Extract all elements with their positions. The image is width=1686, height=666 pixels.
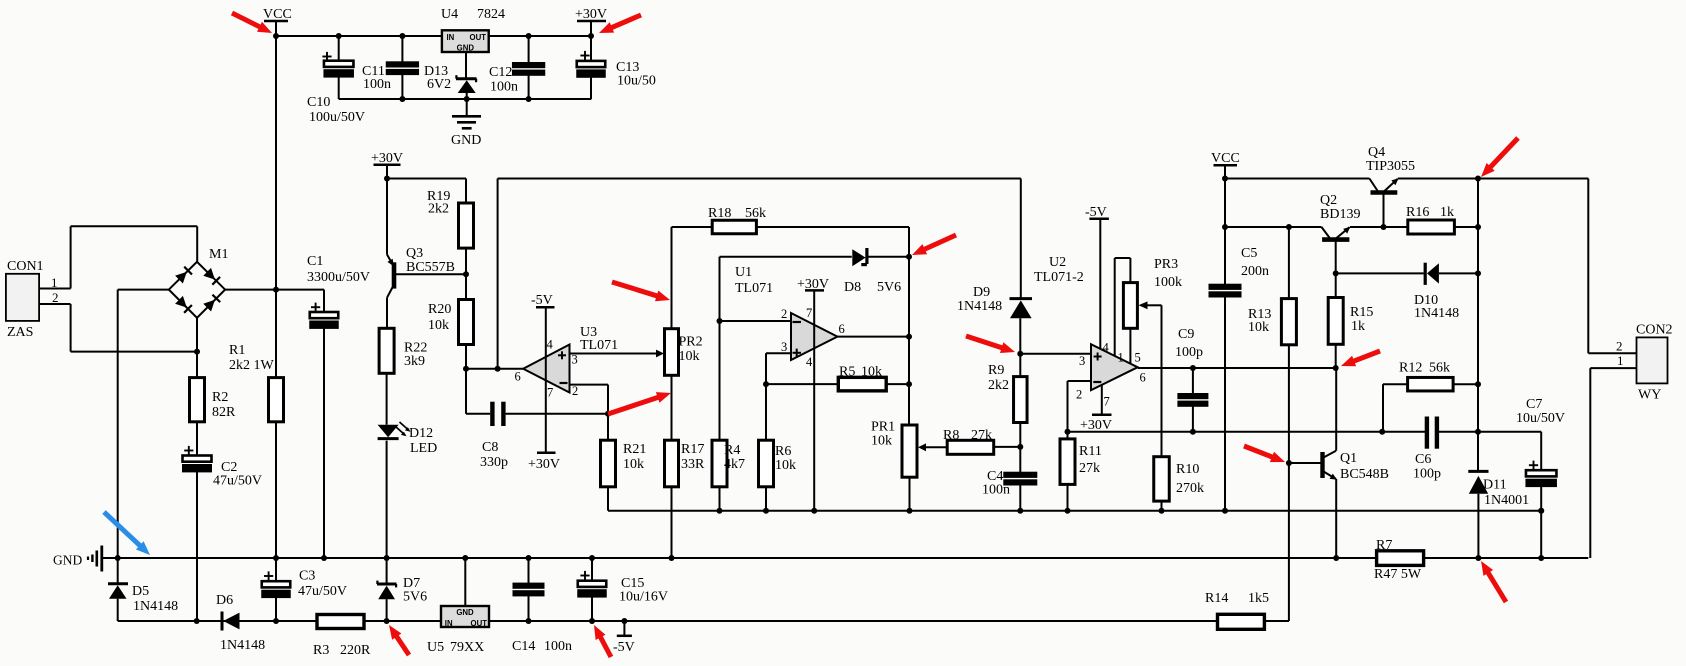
svg-text:C7: C7 — [1526, 397, 1542, 412]
svg-text:IN: IN — [445, 619, 453, 628]
svg-text:2k2 1W: 2k2 1W — [229, 358, 275, 373]
svg-text:PR1: PR1 — [871, 420, 895, 435]
svg-text:10u/50: 10u/50 — [617, 74, 656, 89]
svg-text:R12: R12 — [1399, 361, 1422, 376]
svg-text:R17: R17 — [681, 442, 704, 457]
svg-text:R11: R11 — [1079, 444, 1102, 459]
svg-text:10k: 10k — [428, 318, 449, 333]
svg-text:1: 1 — [1617, 353, 1624, 368]
svg-text:100n: 100n — [982, 483, 1010, 498]
svg-text:R3: R3 — [313, 643, 329, 658]
svg-text:10k: 10k — [679, 349, 700, 364]
svg-text:BD139: BD139 — [1320, 207, 1360, 222]
svg-text:CON2: CON2 — [1636, 323, 1673, 338]
svg-text:200n: 200n — [1241, 264, 1269, 279]
svg-text:270k: 270k — [1176, 481, 1204, 496]
svg-text:TL071: TL071 — [735, 281, 773, 296]
svg-text:47u/50V: 47u/50V — [298, 584, 347, 599]
svg-text:1k: 1k — [1440, 205, 1454, 220]
svg-text:5V6: 5V6 — [877, 280, 901, 295]
svg-text:27k: 27k — [1079, 461, 1100, 476]
svg-text:5V6: 5V6 — [403, 590, 427, 605]
svg-text:100n: 100n — [490, 80, 518, 95]
svg-text:PR2: PR2 — [679, 335, 703, 350]
svg-text:VCC: VCC — [1211, 151, 1240, 166]
svg-text:C12: C12 — [489, 65, 512, 80]
svg-text:3: 3 — [572, 353, 578, 367]
svg-text:R20: R20 — [428, 302, 451, 317]
svg-text:M1: M1 — [209, 247, 228, 262]
svg-text:4: 4 — [1103, 341, 1110, 355]
svg-text:10k: 10k — [1248, 320, 1269, 335]
svg-text:1k: 1k — [1351, 319, 1365, 334]
svg-text:2: 2 — [52, 290, 59, 305]
svg-text:R9: R9 — [988, 363, 1004, 378]
svg-text:U4: U4 — [441, 7, 458, 22]
svg-text:56k: 56k — [745, 206, 766, 221]
svg-text:GND: GND — [457, 43, 475, 52]
svg-text:U5: U5 — [427, 640, 444, 655]
svg-text:82R: 82R — [212, 405, 236, 420]
svg-text:3: 3 — [781, 340, 787, 354]
svg-text:10k: 10k — [861, 365, 882, 380]
svg-text:4k7: 4k7 — [724, 457, 745, 472]
svg-text:3300u/50V: 3300u/50V — [307, 270, 370, 285]
svg-text:6V2: 6V2 — [427, 77, 451, 92]
svg-text:3: 3 — [1079, 354, 1085, 368]
svg-text:100n: 100n — [363, 77, 391, 92]
svg-text:R5: R5 — [839, 365, 855, 380]
svg-text:-5V: -5V — [531, 293, 553, 308]
svg-text:R1: R1 — [229, 343, 245, 358]
svg-text:GND: GND — [451, 133, 481, 148]
svg-text:100n: 100n — [544, 639, 572, 654]
svg-text:R16: R16 — [1406, 205, 1429, 220]
svg-text:2: 2 — [1076, 388, 1082, 402]
svg-text:R10: R10 — [1176, 462, 1199, 477]
svg-text:3k9: 3k9 — [404, 354, 425, 369]
svg-text:10k: 10k — [775, 458, 796, 473]
svg-text:OUT: OUT — [470, 33, 487, 42]
svg-text:5: 5 — [1135, 351, 1141, 365]
svg-text:BC548B: BC548B — [1340, 467, 1389, 482]
svg-text:330p: 330p — [480, 455, 508, 470]
svg-text:2: 2 — [1616, 339, 1623, 354]
svg-text:BC557B: BC557B — [406, 260, 455, 275]
svg-text:R18: R18 — [708, 206, 731, 221]
svg-text:47u/50V: 47u/50V — [213, 474, 262, 489]
svg-text:7: 7 — [1104, 395, 1110, 409]
svg-text:1N4001: 1N4001 — [1484, 493, 1529, 508]
svg-text:ZAS: ZAS — [7, 325, 33, 340]
svg-text:C5: C5 — [1241, 246, 1257, 261]
svg-text:IN: IN — [447, 33, 455, 42]
svg-text:6: 6 — [515, 370, 521, 384]
svg-text:R7: R7 — [1376, 538, 1392, 553]
svg-text:Q4: Q4 — [1368, 145, 1385, 160]
svg-text:100p: 100p — [1175, 345, 1203, 360]
svg-text:R4: R4 — [724, 443, 740, 458]
svg-text:R14: R14 — [1205, 591, 1228, 606]
svg-text:C10: C10 — [307, 95, 330, 110]
svg-text:PR3: PR3 — [1154, 257, 1178, 272]
svg-text:1N4148: 1N4148 — [220, 638, 265, 653]
svg-text:C8: C8 — [482, 440, 498, 455]
svg-text:CON1: CON1 — [7, 259, 44, 274]
svg-text:79XX: 79XX — [450, 640, 484, 655]
svg-text:+30V: +30V — [797, 277, 829, 292]
svg-text:7824: 7824 — [477, 7, 505, 22]
svg-text:R2: R2 — [212, 390, 228, 405]
svg-text:7: 7 — [547, 386, 553, 400]
svg-text:TL071: TL071 — [580, 338, 618, 353]
svg-text:1N4148: 1N4148 — [957, 299, 1002, 314]
svg-text:D8: D8 — [844, 280, 861, 295]
svg-text:TIP3055: TIP3055 — [1366, 159, 1415, 174]
svg-text:100k: 100k — [1154, 275, 1182, 290]
svg-text:OUT: OUT — [471, 619, 488, 628]
svg-text:10k: 10k — [871, 434, 892, 449]
svg-text:2: 2 — [572, 384, 578, 398]
svg-text:Q3: Q3 — [406, 246, 423, 261]
svg-text:1N4148: 1N4148 — [1414, 306, 1459, 321]
svg-text:C3: C3 — [299, 569, 315, 584]
svg-text:33R: 33R — [681, 457, 705, 472]
svg-text:4: 4 — [806, 355, 813, 369]
svg-text:D11: D11 — [1483, 478, 1507, 493]
svg-text:R15: R15 — [1350, 305, 1373, 320]
svg-text:2k2: 2k2 — [988, 378, 1009, 393]
svg-text:1N4148: 1N4148 — [133, 599, 178, 614]
svg-text:100u/50V: 100u/50V — [309, 110, 365, 125]
svg-text:C1: C1 — [307, 254, 323, 269]
svg-text:Q2: Q2 — [1320, 193, 1337, 208]
svg-text:100p: 100p — [1413, 467, 1441, 482]
svg-text:WY: WY — [1638, 388, 1661, 403]
svg-text:R47 5W: R47 5W — [1374, 567, 1422, 582]
svg-text:10k: 10k — [623, 457, 644, 472]
svg-text:C6: C6 — [1415, 452, 1431, 467]
svg-text:4: 4 — [547, 338, 554, 352]
svg-text:1k5: 1k5 — [1248, 591, 1269, 606]
svg-text:220R: 220R — [340, 643, 371, 658]
svg-text:D12: D12 — [409, 426, 433, 441]
svg-text:LED: LED — [410, 441, 437, 456]
svg-text:-5V: -5V — [613, 640, 635, 655]
svg-text:U2: U2 — [1049, 255, 1066, 270]
svg-text:+30V: +30V — [528, 457, 560, 472]
svg-text:C14: C14 — [512, 639, 535, 654]
svg-text:10u/16V: 10u/16V — [619, 590, 668, 605]
svg-text:D6: D6 — [216, 593, 233, 608]
svg-text:6: 6 — [1140, 371, 1146, 385]
svg-text:R6: R6 — [775, 444, 791, 459]
svg-text:10u/50V: 10u/50V — [1516, 411, 1565, 426]
svg-text:2k2: 2k2 — [428, 202, 449, 217]
svg-text:7: 7 — [806, 306, 812, 320]
svg-text:C9: C9 — [1178, 327, 1194, 342]
svg-text:D5: D5 — [132, 584, 149, 599]
svg-text:R8: R8 — [943, 428, 959, 443]
svg-text:R21: R21 — [623, 442, 646, 457]
svg-text:6: 6 — [839, 322, 845, 336]
svg-text:D9: D9 — [973, 285, 990, 300]
svg-text:U1: U1 — [735, 265, 752, 280]
svg-text:GND: GND — [456, 608, 474, 617]
svg-text:GND: GND — [53, 553, 82, 568]
svg-text:1: 1 — [1118, 351, 1124, 365]
svg-text:56k: 56k — [1429, 361, 1450, 376]
svg-text:Q1: Q1 — [1340, 451, 1357, 466]
svg-text:2: 2 — [781, 307, 787, 321]
svg-text:27k: 27k — [971, 428, 992, 443]
svg-text:TL071-2: TL071-2 — [1034, 270, 1084, 285]
